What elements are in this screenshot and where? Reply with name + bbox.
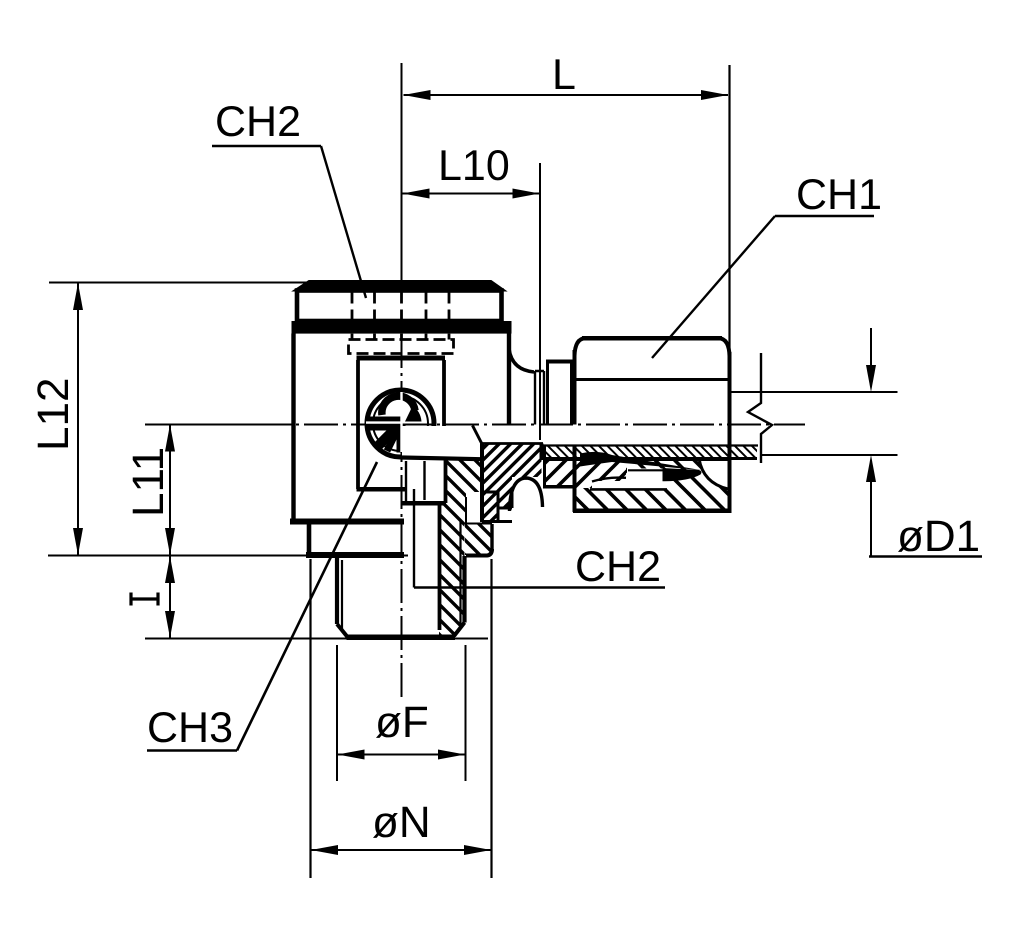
channel right end diagonal <box>473 426 483 445</box>
nut section top boundary <box>543 458 730 461</box>
svg-text:øF: øF <box>375 698 429 747</box>
socket top edge <box>357 356 446 361</box>
cap bottom ring band <box>292 321 512 334</box>
oF extension left <box>336 645 338 781</box>
washer section hatch <box>543 460 626 489</box>
svg-text:CH2: CH2 <box>215 98 301 146</box>
cross drill upper right wedge <box>405 406 422 422</box>
nut CH1 top edge <box>582 336 722 341</box>
hidden thread stubs below cap <box>352 334 449 340</box>
leader CH2 bottom underline <box>414 586 665 588</box>
dimension L11 line <box>169 425 171 556</box>
cross drill inner thick arc <box>382 396 415 415</box>
nut CH1 left edge <box>573 350 577 425</box>
vertical centerline <box>401 63 403 291</box>
L12 bottom arrow <box>73 528 83 555</box>
oD1 extension tube bottom <box>760 454 898 456</box>
nut section bottom <box>573 509 731 514</box>
oN extension right <box>490 559 492 878</box>
dimension L left arrow <box>404 90 431 100</box>
ring section hatch top band <box>482 444 542 461</box>
cutting ring blob <box>663 468 702 481</box>
nut cone arc <box>699 459 728 490</box>
svg-text:L11: L11 <box>124 447 173 517</box>
tube strip top edge <box>543 444 758 446</box>
ring section hatch main <box>482 460 512 492</box>
washer bottom edge <box>543 485 573 489</box>
stud right edge section <box>462 556 466 623</box>
hex CH3 left edge <box>307 523 312 555</box>
tube strip bottom edge <box>543 457 757 460</box>
leader CH2 top underline <box>212 145 321 147</box>
stud bottom face <box>347 635 456 641</box>
dimension L10 right arrow <box>513 189 540 199</box>
L12 top arrow <box>73 283 83 310</box>
washer sleeve sides <box>548 360 572 425</box>
nut slot white <box>627 469 663 482</box>
svg-text:CH3: CH3 <box>147 704 233 752</box>
hidden hex dashed rect <box>349 340 454 354</box>
body right edge <box>507 334 511 425</box>
svg-text:CH1: CH1 <box>796 171 882 219</box>
dimension L right arrow <box>701 90 728 100</box>
hex right edge <box>490 524 493 551</box>
port fillet arc <box>509 349 534 372</box>
bore bottom step <box>402 501 447 506</box>
oF extension right <box>465 645 467 781</box>
cutting ring body band <box>580 452 702 470</box>
hex right bottom edge <box>466 549 492 556</box>
svg-text:L12: L12 <box>29 378 78 451</box>
tube break squiggle <box>748 353 772 463</box>
dimension L10 left arrow <box>403 189 430 199</box>
socket right wall <box>442 360 446 428</box>
leader CH1 underline <box>775 215 874 217</box>
oF right arrow <box>438 750 465 760</box>
cross drill outer circle <box>367 390 434 457</box>
L10 extension line <box>539 163 541 440</box>
oD1 lower arrowhead <box>866 455 876 482</box>
oD1 extension tube top <box>731 391 898 393</box>
cap nut body <box>297 291 502 322</box>
nut slot top edge <box>628 469 663 471</box>
hex bottom thick line <box>306 552 404 558</box>
leader CH1 diagonal <box>652 216 775 358</box>
cutting ring lower edge <box>592 478 626 482</box>
I bottom arrow <box>165 611 175 638</box>
ring top edge line <box>482 442 543 445</box>
body bottom line <box>290 519 404 525</box>
L11 bottom arrow <box>165 528 175 555</box>
dimension L12 line <box>77 283 79 555</box>
stud thread root left <box>341 560 343 629</box>
dimension L10 line <box>403 193 540 195</box>
I top arrow <box>165 556 175 583</box>
leader CH2 top diagonal <box>321 146 366 298</box>
socket left wall <box>356 360 360 489</box>
oN dimension line <box>311 849 491 851</box>
ring right groove edge <box>540 444 544 461</box>
svg-text:CH2: CH2 <box>575 543 661 591</box>
nut right edge <box>728 352 732 513</box>
screw shoulder hatch <box>439 460 482 524</box>
dimension L horizontal line <box>404 94 729 96</box>
nut CH1 flat line <box>575 378 730 381</box>
oD1 upper arrow line <box>870 328 872 376</box>
socket root stub line <box>423 461 425 500</box>
cap knurl dashed lines <box>352 292 449 322</box>
leader CH3 diagonal <box>237 462 377 751</box>
cap nut CH2 top chamfer band <box>295 281 505 291</box>
dimension I label drawn <box>131 593 158 606</box>
cross drill white slits <box>366 392 402 452</box>
extension line top left <box>49 282 360 284</box>
socket bottom left <box>357 487 406 492</box>
L extension line right <box>728 65 730 352</box>
svg-text:øD1: øD1 <box>897 512 980 561</box>
nut left edge lower <box>573 446 577 512</box>
channel bottom edge <box>402 458 481 460</box>
stud thread root right <box>459 520 461 629</box>
oF dimension line <box>337 754 465 756</box>
ring section hatch stair col <box>482 492 498 522</box>
tube wall strip hatch <box>543 446 757 458</box>
leader CH3 underline <box>147 749 237 751</box>
nut cone pocket white <box>698 459 728 489</box>
oD1 lower arrow line <box>870 479 872 557</box>
stud left chamfer <box>337 624 348 637</box>
hex right top line <box>464 523 492 525</box>
extension line mid left <box>48 555 408 557</box>
nut strip bottom boundary <box>590 488 667 491</box>
bore lower wall <box>438 505 442 630</box>
svg-text:L: L <box>552 51 576 99</box>
hex right section hatch <box>465 524 492 555</box>
body left edge <box>291 334 295 521</box>
stud right chamfer <box>454 623 465 637</box>
screw wall strip hatch <box>439 505 465 636</box>
pilot bore right wall <box>405 461 407 503</box>
screw shoulder inner edge <box>465 497 467 524</box>
washer left edge lower <box>543 446 546 489</box>
svg-text:øN: øN <box>372 798 431 847</box>
nut CH1 right corner arc <box>719 338 730 356</box>
nut section hatch <box>573 460 731 513</box>
oF left arrow <box>338 750 365 760</box>
oN extension left <box>309 559 311 878</box>
leader CH2 bottom vertical <box>413 489 415 588</box>
ring section hatch above dome <box>512 460 542 477</box>
extension line bottom left <box>145 638 488 640</box>
nut lower white strip <box>592 481 667 489</box>
oD1 upper arrowhead <box>866 365 876 392</box>
cross drill vertical bar <box>397 424 406 453</box>
svg-text:L10: L10 <box>438 142 510 190</box>
leader oD1 underline <box>869 555 982 557</box>
cross drill left spoke bar <box>368 417 401 431</box>
screw shoulder right edge <box>480 444 484 523</box>
cross drill lower spoke2 <box>387 424 401 452</box>
stud left edge <box>335 556 339 624</box>
ring fillet dome arc <box>510 478 543 511</box>
cross drill inner circle <box>373 396 428 451</box>
oN left arrow <box>311 845 338 855</box>
ring bottom face line <box>482 520 512 523</box>
port neck lines <box>535 371 544 425</box>
ring step outline <box>482 492 512 522</box>
oN right arrow <box>464 845 491 855</box>
L11 top arrow <box>165 425 175 452</box>
dimension I line <box>169 556 171 639</box>
bore wall below channel <box>444 460 448 503</box>
cross drill lower left spoke <box>378 424 401 447</box>
ring section hatch step <box>498 492 512 508</box>
washer sleeve top <box>546 360 573 364</box>
nut CH1 left corner arc <box>575 338 586 356</box>
channel white overlay <box>402 426 480 456</box>
horizontal centerline <box>145 424 294 426</box>
